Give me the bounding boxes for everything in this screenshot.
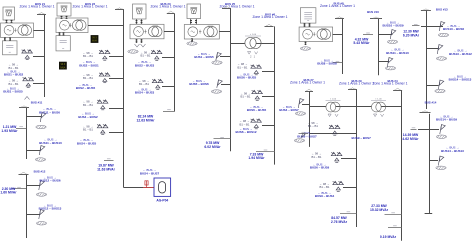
svg-text:BUS6 – BUS12: BUS6 – BUS12 [235,130,256,134]
svg-text:2.76 MVAr: 2.76 MVAr [331,220,348,224]
svg-text:BUS4 – BUS3: BUS4 – BUS3 [135,91,155,95]
svg-text:BUS #11: BUS #11 [31,101,43,105]
svg-text:2 1: 2 1 [250,55,256,59]
svg-text:B1 – B1: B1 – B1 [320,185,330,189]
svg-text:12.63 MVAr: 12.63 MVAr [136,118,155,122]
svg-text:B1 – B1: B1 – B1 [308,124,318,128]
svg-text:BUS11 – BUS6: BUS11 – BUS6 [39,110,60,114]
svg-text:B1 – B1: B1 – B1 [240,122,250,126]
svg-text:BUS13 – BUS6: BUS13 – BUS6 [443,27,464,31]
svg-text:B1 – B1: B1 – B1 [238,65,248,69]
svg-text:BUS8 – BUS8: BUS8 – BUS8 [317,62,337,66]
svg-text:B1 – B1: B1 – B1 [83,76,93,80]
svg-text:BUS4 – BUS2: BUS4 – BUS2 [78,115,98,119]
svg-text:1.94 MVAr: 1.94 MVAr [248,156,265,160]
svg-text:BUS6 – BUS9: BUS6 – BUS9 [310,166,330,170]
svg-text:BUS11 – BUS10: BUS11 – BUS10 [386,51,409,55]
svg-text:BUS2 – BUS3: BUS2 – BUS3 [135,63,155,67]
svg-text:B1 – B1: B1 – B1 [312,155,322,159]
svg-text:BUS #14: BUS #14 [425,101,437,105]
svg-text:Zone 1 Area 1 Owner 1: Zone 1 Area 1 Owner 1 [150,5,185,9]
svg-text:BUS #10: BUS #10 [367,10,379,14]
svg-text:Zone 1 Area 1 Owner 1: Zone 1 Area 1 Owner 1 [339,82,374,86]
svg-text:Zone 1 Area 1 Owner 1: Zone 1 Area 1 Owner 1 [252,15,287,19]
svg-text:BUS4 – BUS7: BUS4 – BUS7 [279,108,299,112]
svg-text:BUS1 – BUS5: BUS1 – BUS5 [194,55,214,59]
svg-text:MVA: MVA [92,40,97,43]
svg-text:BUS4 – BUS7: BUS4 – BUS7 [140,171,160,175]
svg-text:t: 1.00: t: 1.00 [250,33,257,36]
svg-text:BUS14 – BUS9: BUS14 – BUS9 [436,118,457,122]
svg-text:AG-P04: AG-P04 [156,198,168,202]
svg-text:0.19 MVAr: 0.19 MVAr [380,235,397,239]
svg-text:Zone 1 Area 1 Owner 1: Zone 1 Area 1 Owner 1 [320,4,355,8]
svg-text:BUS12 – BUS13: BUS12 – BUS13 [39,207,62,211]
svg-text:4.62 MVAr: 4.62 MVAr [402,137,419,141]
svg-text:5.43 MVAr: 5.43 MVAr [353,41,370,45]
svg-text:BUS9 – BUS4: BUS9 – BUS4 [315,194,335,198]
svg-text:1.93 MVAr: 1.93 MVAr [1,129,18,133]
svg-text:BUS1 – BUS5: BUS1 – BUS5 [3,90,23,94]
svg-text:Zone 1 Area 1 Owner 1: Zone 1 Area 1 Owner 1 [72,5,107,9]
svg-text:B1 – B1: B1 – B1 [83,54,93,58]
svg-text:B1 – B1: B1 – B1 [139,82,149,86]
svg-text:B1 – B1: B1 – B1 [141,54,151,58]
svg-text:6.20 MVAr: 6.20 MVAr [403,33,420,37]
svg-text:6.02 MVAr: 6.02 MVAr [204,145,221,149]
svg-text:BUS9 – BUS7: BUS9 – BUS7 [352,136,372,140]
svg-text:Zone 1 Area 1 Owner 1: Zone 1 Area 1 Owner 1 [290,81,325,85]
svg-text:BUS5 – BUS6: BUS5 – BUS6 [189,82,209,86]
svg-text:1.60 MVAr: 1.60 MVAr [0,191,17,195]
svg-text:B1 – B1: B1 – B1 [83,103,93,107]
svg-text:BUS4 – BUS5: BUS4 – BUS5 [77,141,97,145]
svg-text:BUS13 – BUS12: BUS13 – BUS12 [449,52,472,56]
svg-text:B1 – B1: B1 – B1 [241,95,251,99]
svg-text:BUS11 – BUS10: BUS11 – BUS10 [39,141,62,145]
svg-text:t: 1.00: t: 1.00 [330,97,337,100]
svg-text:B1 – B1: B1 – B1 [83,128,93,132]
svg-text:MVA: MVA [60,66,65,69]
svg-text:BUS14 – BUS13: BUS14 – BUS13 [449,78,472,82]
svg-text:t: 1.00: t: 1.00 [375,97,382,100]
svg-text:B1 – B1: B1 – B1 [9,82,19,86]
svg-text:BUS #12: BUS #12 [34,169,46,173]
svg-text:15.32 MVAr: 15.32 MVAr [370,208,389,212]
svg-text:Zone 1 Area 1 Owner 1: Zone 1 Area 1 Owner 1 [19,5,54,9]
svg-text:BUS6 – BUS5: BUS6 – BUS5 [247,108,267,112]
svg-text:Zone 1 Area 1 Owner 1: Zone 1 Area 1 Owner 1 [372,82,407,86]
svg-text:BUS1 – BUS2: BUS1 – BUS2 [4,73,24,77]
svg-text:BUS6 – BUS5: BUS6 – BUS5 [237,76,257,80]
svg-text:Zone 1 Area 1 Owner 1: Zone 1 Area 1 Owner 1 [219,5,254,9]
svg-text:BUS2 – BUS5: BUS2 – BUS5 [76,86,96,90]
svg-text:BUS12 – BUS6: BUS12 – BUS6 [39,179,60,183]
svg-text:BUS #13: BUS #13 [436,8,448,12]
svg-text:BUS9 – BUS7: BUS9 – BUS7 [297,134,317,138]
svg-text:BUS10 – BUS9: BUS10 – BUS9 [382,24,403,28]
svg-text:BUS14 – BUS13: BUS14 – BUS13 [441,149,464,153]
svg-text:BUS2 – BUS1: BUS2 – BUS1 [79,63,99,67]
svg-text:11.63 MVAr: 11.63 MVAr [97,167,116,171]
